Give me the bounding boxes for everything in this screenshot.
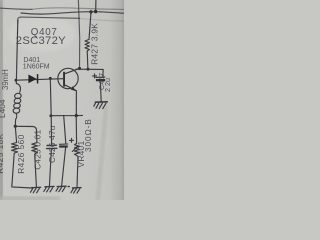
wire: faint upper rail continuation [32, 8, 124, 10]
node dot collector/feed [78, 67, 81, 70]
svg-text:R426 560: R426 560 [16, 134, 26, 174]
transistor Q407 [58, 68, 80, 115]
inductor L404 coil [13, 80, 22, 126]
wire: J1 down to R425 [15, 126, 16, 142]
capacitor C457 (electrolytic) [96, 77, 105, 102]
paper grain [0, 0, 124, 200]
wire: horizontal link from left leg to vertical feed [18, 17, 80, 23]
capacitor C425 [47, 116, 57, 187]
wire: left vertical leg down to base node [16, 20, 17, 80]
light patch behind title [8, 16, 76, 52]
ground for C425 [44, 186, 54, 192]
node dot emitter [75, 114, 78, 117]
plus sign of C457 [93, 74, 97, 78]
capacitor C426 (electrolytic) [59, 116, 68, 187]
node dot J1 below coil [14, 125, 17, 128]
left page edge shadow [0, 0, 2, 200]
diode D401 [28, 74, 38, 83]
plus sign of C426 [70, 138, 74, 142]
svg-text:C426 47u: C426 47u [47, 125, 57, 163]
node dot emitter-rail / C425 [49, 114, 52, 117]
right crease shadow [95, 106, 108, 202]
ground for R425/R426 [30, 187, 40, 193]
svg-text:2 2u: 2 2u [103, 78, 112, 92]
wire: top supply rail [21, 12, 124, 14]
svg-text:39mH: 39mH [1, 69, 10, 90]
wire: faint upper rail [0, 8, 32, 9]
wire: J1 to R426 branch [15, 126, 37, 142]
ground for C457 [94, 102, 107, 109]
node dot collector/R427 [86, 68, 89, 71]
wire: ghost line right of link [80, 19, 124, 22]
resistor R427 zigzag [85, 39, 89, 69]
paper background [0, 0, 124, 200]
wire: stub from top edge to rail [95, 0, 97, 12]
svg-text:2SC372Y: 2SC372Y [16, 35, 66, 47]
wire: emitter rail [51, 114, 83, 116]
svg-text:R427 3.9K: R427 3.9K [89, 23, 99, 65]
speck near VR ground [68, 186, 70, 187]
node dot on rail (right) [94, 10, 97, 13]
svg-text:L404: L404 [0, 99, 7, 118]
node dot at base wire / left leg [15, 79, 18, 82]
wire: collector node horizontal [76, 69, 103, 77]
variable resistor VR401 [72, 116, 79, 188]
ground for VR401 [71, 188, 81, 194]
svg-text:R425 18K: R425 18K [0, 133, 5, 174]
wire: base wire from left leg to transistor base [16, 79, 63, 81]
resistor R426 zigzag [32, 143, 38, 187]
ground for C426 [56, 186, 66, 192]
wire: vertical feed from top edge down to collector node [78, 0, 79, 68]
svg-text:1N60FM: 1N60FM [23, 64, 50, 71]
node dot on rail (left) [89, 10, 92, 13]
wire: base node to C425 drop [49, 77, 52, 80]
svg-text:C425 0.01: C425 0.01 [32, 130, 42, 170]
resistor R425 zigzag [12, 143, 32, 189]
resistor R427 lead from rail [89, 12, 91, 40]
bottom edge shading [0, 197, 60, 201]
svg-text:300Ω-B: 300Ω-B [83, 118, 93, 152]
